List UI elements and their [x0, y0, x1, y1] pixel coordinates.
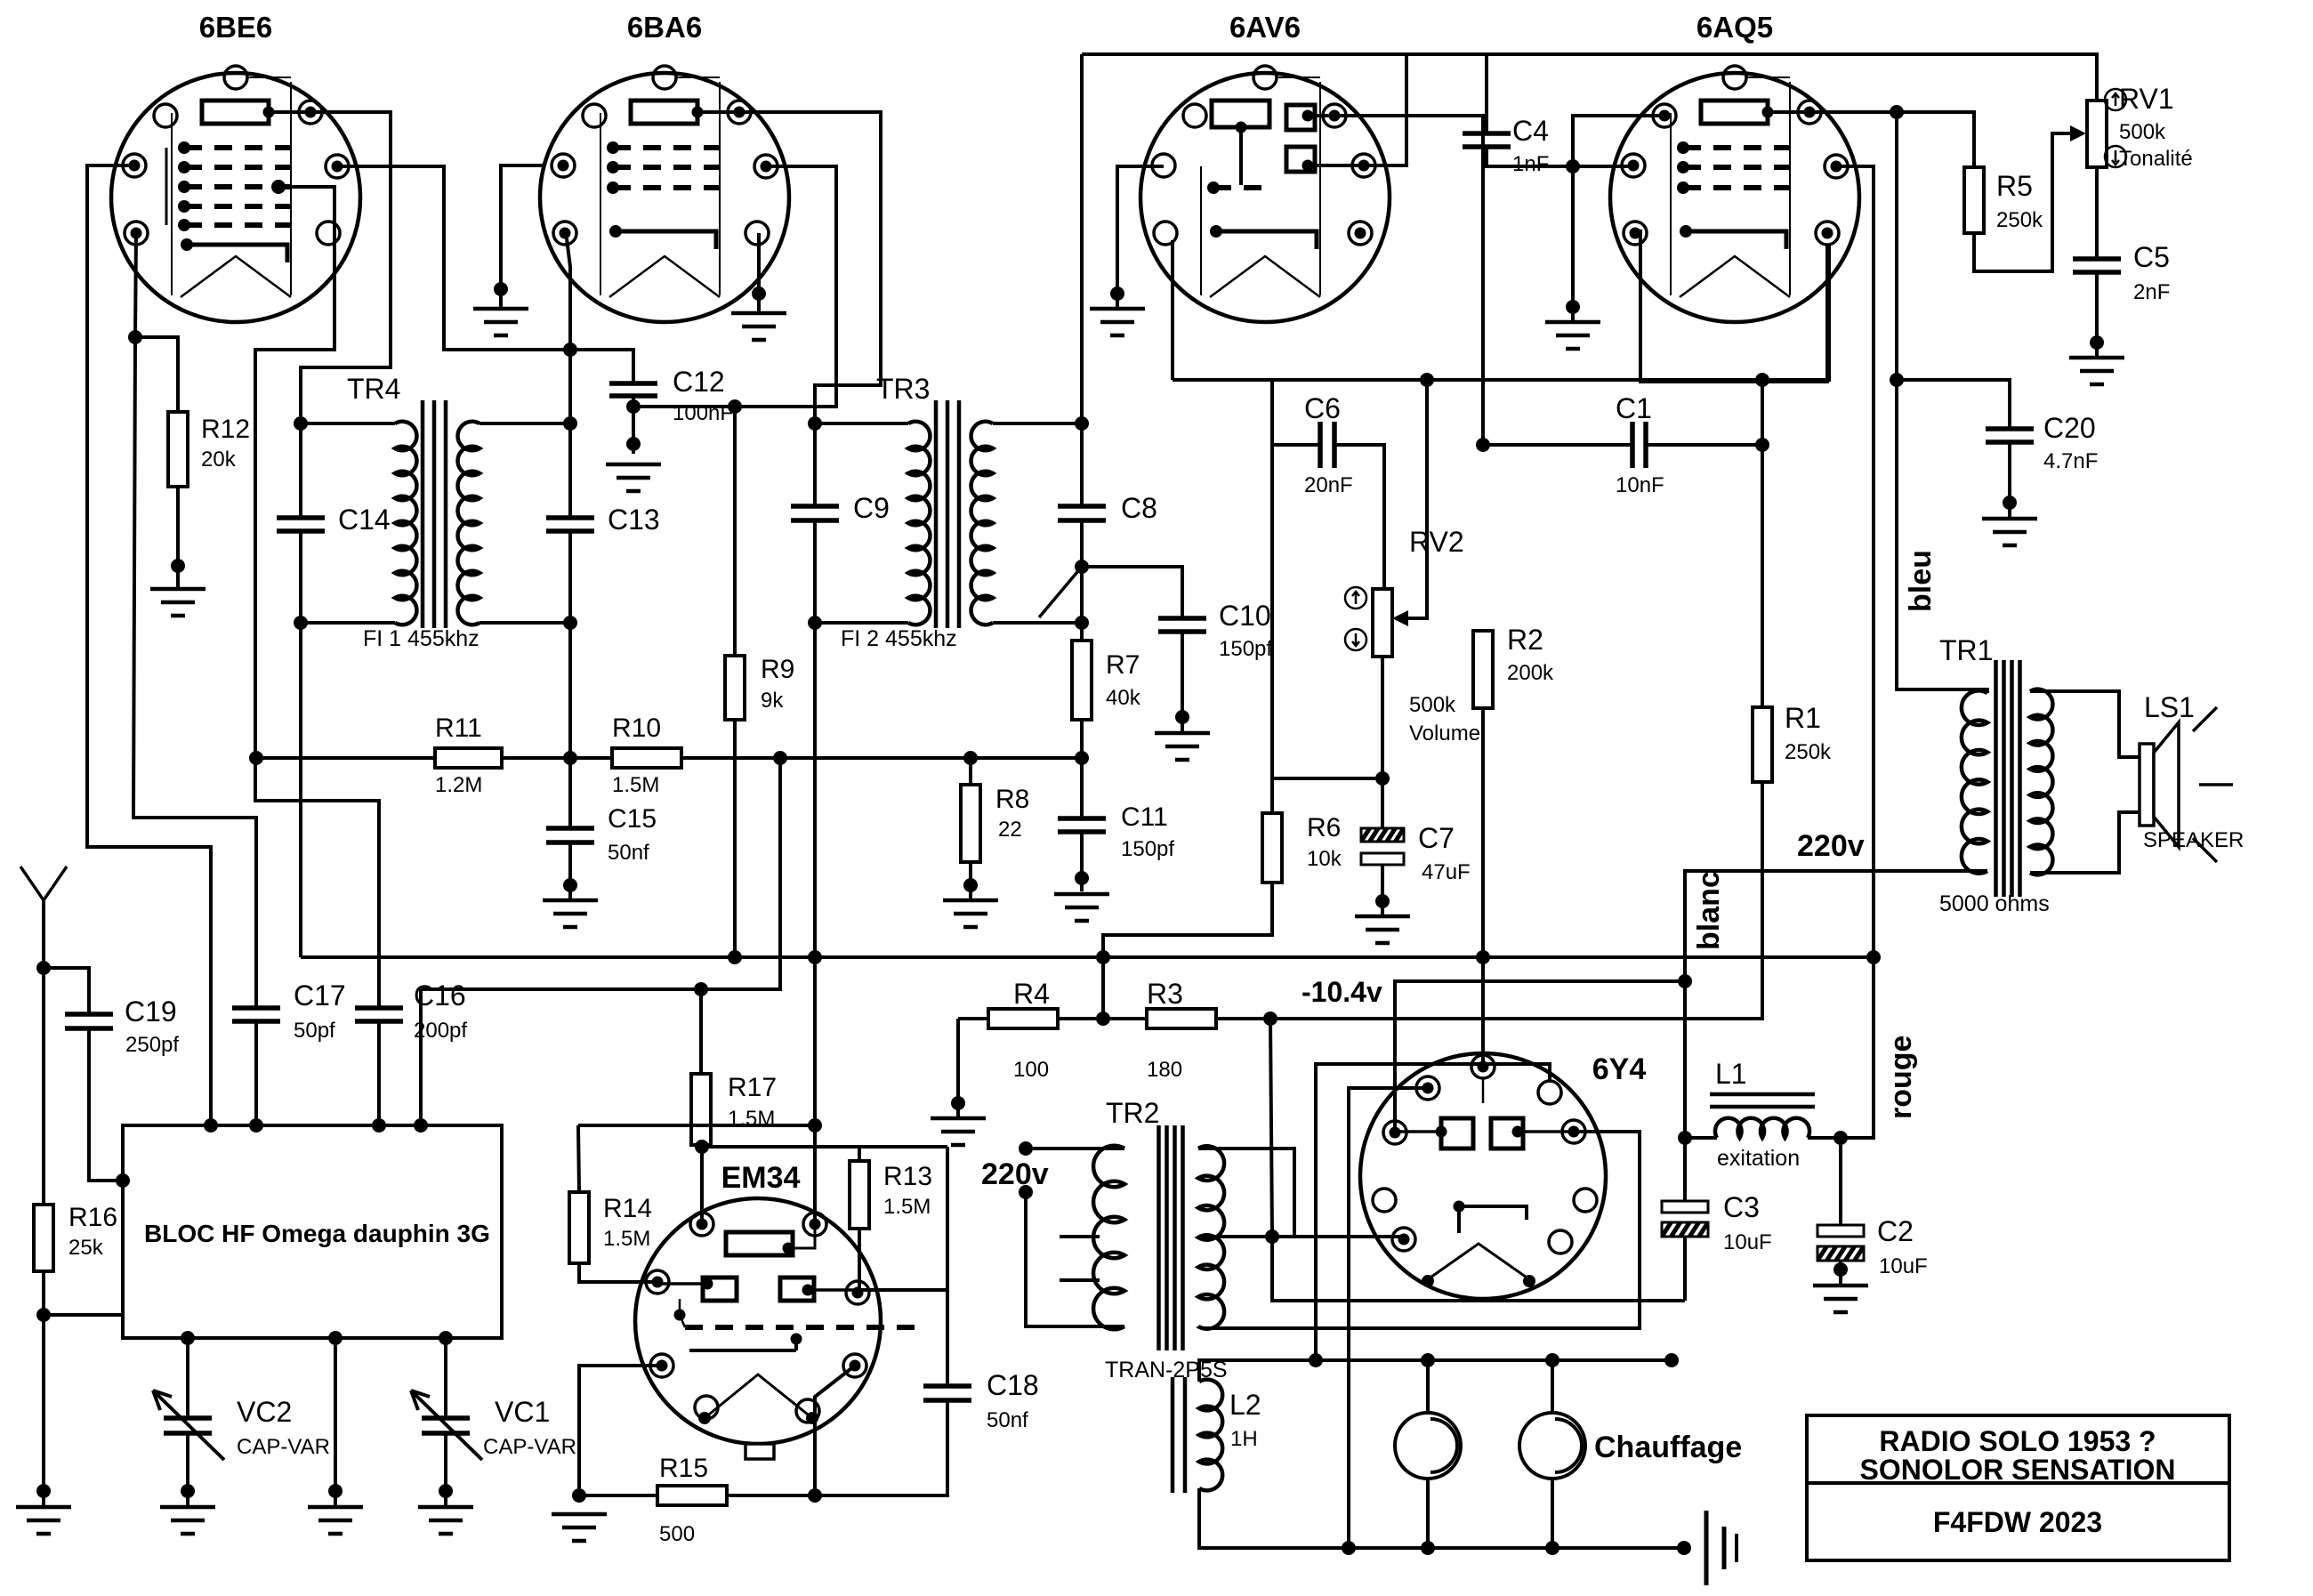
wire to R12: [135, 337, 178, 412]
node 220v in 2: [1019, 1185, 1033, 1199]
tube 6AV6 diode plate 2: [1286, 147, 1315, 172]
transformer TR2 core: [1159, 1125, 1183, 1350]
tube 6BA6 pins: [552, 154, 575, 177]
tube 6BA6 heater: [609, 256, 720, 297]
transformer TR3 primary: [815, 422, 908, 425]
capacitor C3 electrolytic: [1662, 1201, 1708, 1213]
wire 6AV6 pin to top rail: [1364, 54, 1406, 165]
wire 6Y4 heater left to lamps: [1349, 1088, 1428, 1548]
svg-text:5000 ohms: 5000 ohms: [1939, 891, 2050, 916]
transformer TR3 secondary: [993, 422, 1082, 425]
wire C2 ground: [1839, 1261, 1842, 1284]
node R16-BLOC: [36, 1308, 51, 1322]
wire C18 bottom: [815, 1400, 947, 1495]
wire C7 ground: [1381, 865, 1384, 915]
ground R16: [16, 1507, 71, 1534]
tube 6BA6 anode: [631, 101, 697, 124]
svg-text:R2: R2: [1507, 624, 1543, 656]
node bus: [1866, 950, 1881, 964]
wire R12 bottom: [176, 487, 180, 587]
capacitor C14: [299, 423, 302, 518]
ground C5: [2069, 358, 2124, 384]
node C10 gnd: [1175, 710, 1189, 724]
wire 6AQ5 screen pin to gnd: [1573, 116, 1664, 320]
wire R9 top: [733, 407, 737, 656]
RV2 ccw arrow circle: [1345, 629, 1366, 650]
wire EM34 grid pin from R17 rail: [700, 1147, 704, 1224]
capacitor C12: [609, 383, 657, 396]
svg-text:R16: R16: [69, 1203, 117, 1232]
wire 6BE6 cathode: [133, 233, 256, 1008]
tube 6AV6 grid: [1213, 185, 1263, 190]
tube 6AQ5 grids: [1683, 145, 1790, 150]
RV2 cw arrow circle: [1345, 587, 1366, 609]
wire 6BE6 screen to B+: [336, 166, 633, 383]
tube 6Y4 pins: [1471, 1055, 1495, 1078]
TR2 primary taps: [1060, 1235, 1100, 1238]
inductor L1 core: [1710, 1094, 1815, 1107]
svg-text:FI 1 455khz: FI 1 455khz: [363, 626, 480, 651]
wire antenna to C19: [44, 968, 89, 1014]
node RV2-R6-C7: [1375, 771, 1390, 786]
svg-text:6Y4: 6Y4: [1592, 1052, 1647, 1086]
wire antenna to R16: [42, 968, 45, 1205]
TR2 center tap: [1198, 1235, 1404, 1238]
svg-text:C11: C11: [1121, 802, 1168, 832]
capacitor C18: [923, 1386, 971, 1400]
svg-text:6BA6: 6BA6: [627, 11, 702, 44]
svg-text:SPEAKER: SPEAKER: [2143, 828, 2244, 852]
resistor R8: [969, 758, 972, 785]
node R1 top rail: [1755, 373, 1769, 387]
node R15 left: [572, 1488, 586, 1503]
svg-text:22: 22: [998, 818, 1022, 842]
node bottom bus x1516: [1342, 1541, 1356, 1555]
node 220v in 1: [1019, 1141, 1033, 1156]
tube 6BE6 internal frame: [172, 82, 291, 295]
node BLOC top pin: [249, 1118, 263, 1133]
node L1 blanc: [1678, 1131, 1692, 1145]
svg-text:bleu: bleu: [1904, 550, 1938, 612]
ground C20: [1982, 519, 2037, 545]
wire EM34 top rail: [578, 1124, 815, 1127]
wire main AVC/return bus: [301, 955, 1874, 959]
wire R16 bottom: [42, 1271, 45, 1505]
node R4-R3: [1096, 1012, 1110, 1026]
transformer TR4 core: [423, 400, 446, 628]
wire volume wiper feed: [1404, 380, 1427, 618]
node L1 C2: [1833, 1131, 1848, 1145]
wire to C6: [1272, 380, 1320, 445]
ground C15: [543, 900, 598, 927]
wire 6Y4 left pin to blanc: [1395, 981, 1685, 1133]
wire C6 to RV2 top: [1334, 445, 1384, 589]
svg-text:1.2M: 1.2M: [435, 773, 482, 797]
svg-text:C2: C2: [1877, 1215, 1914, 1247]
tube 6AQ5 top pin: [1723, 66, 1746, 89]
variable capacitor VC2: [164, 1418, 212, 1433]
capacitor C15: [568, 758, 572, 828]
svg-text:CAP-VAR: CAP-VAR: [483, 1435, 576, 1459]
node CT: [1265, 1229, 1279, 1244]
svg-text:RV2: RV2: [1409, 526, 1464, 558]
wire 6Y4 right heater to TR2: [1203, 1132, 1640, 1328]
tube 6AV6 diode plate 1: [1286, 105, 1315, 130]
node BLOC bottom pin: [439, 1331, 453, 1345]
wire R6 top: [1270, 445, 1274, 813]
chassis symbol: [1705, 1511, 1709, 1585]
svg-text:-10.4v: -10.4v: [1302, 976, 1382, 1008]
node lamp2 bottom: [1545, 1541, 1559, 1555]
node lamp1 bottom: [1421, 1541, 1435, 1555]
svg-text:C16: C16: [414, 979, 466, 1012]
svg-text:10uF: 10uF: [1879, 1254, 1928, 1278]
resistor R5: [1964, 167, 1984, 233]
resistor R6: [1262, 813, 1282, 883]
capacitor C9: [813, 423, 817, 506]
potentiometer RV2: [1373, 589, 1392, 657]
ground 6AQ5 grid: [1545, 322, 1600, 349]
wire detector line: [1173, 244, 1829, 380]
speaker LS1: [2140, 744, 2154, 826]
node R17 tap: [694, 982, 708, 996]
svg-text:TR2: TR2: [1106, 1097, 1159, 1129]
svg-text:250k: 250k: [1996, 208, 2043, 232]
resistor R3: [1147, 1009, 1216, 1028]
wire 6AV6 cathode to detector line: [1171, 240, 1174, 380]
wire C4 hang: [1485, 54, 1488, 133]
svg-text:R17: R17: [728, 1073, 777, 1102]
svg-text:R10: R10: [612, 713, 661, 743]
svg-text:CAP-VAR: CAP-VAR: [237, 1435, 330, 1459]
node R12 ground: [171, 559, 185, 573]
node C12 ground: [626, 437, 641, 451]
tube 6AV6 heater: [1210, 256, 1320, 297]
capacitor C4: [1463, 133, 1511, 147]
tube 6BE6 heater: [181, 256, 291, 297]
svg-text:RADIO SOLO 1953 ?: RADIO SOLO 1953 ?: [1879, 1425, 2156, 1457]
svg-text:20nF: 20nF: [1304, 473, 1353, 497]
wire C4 to 6AQ5 grid: [1487, 147, 1633, 166]
svg-text:C7: C7: [1418, 822, 1455, 854]
svg-text:R9: R9: [761, 655, 794, 684]
wire 6Y4 heater mid to lamp bus: [1316, 1064, 1550, 1360]
wire VC1 column: [444, 1338, 447, 1418]
transformer TR4 secondary: [480, 422, 570, 425]
tube 6Y4 envelope: [1360, 1053, 1606, 1299]
node C11 gnd: [1075, 871, 1089, 885]
node lamp2 top: [1545, 1353, 1559, 1367]
svg-text:F4FDW 2023: F4FDW 2023: [1933, 1506, 2102, 1538]
resistor R2: [1473, 631, 1493, 708]
wire VC2 column: [186, 1338, 189, 1418]
tube 6BA6 spare pin: [583, 104, 606, 127]
capacitor C1: [1632, 422, 1646, 468]
ground 6BA6 cathode: [731, 313, 786, 340]
tube 6AQ5 spare pin: [1653, 104, 1676, 127]
svg-text:exitation: exitation: [1717, 1146, 1800, 1171]
svg-text:C1: C1: [1616, 392, 1652, 424]
wiper arrow RV1: [2070, 125, 2086, 141]
inductor L1: [1715, 1118, 1809, 1138]
svg-text:blanc: blanc: [1692, 871, 1726, 950]
svg-text:C14: C14: [338, 504, 391, 536]
tube 6AQ5 internal frame: [1671, 82, 1790, 295]
svg-text:SONOLOR SENSATION: SONOLOR SENSATION: [1860, 1454, 2176, 1486]
svg-text:Tonalité: Tonalité: [2119, 147, 2193, 171]
svg-text:4.7nF: 4.7nF: [2043, 449, 2098, 473]
svg-text:LS1: LS1: [2144, 691, 2195, 723]
resistor R7: [1072, 641, 1092, 720]
wire RV2 bottom: [1381, 657, 1384, 828]
tube 6AQ5 pins: [1622, 154, 1645, 177]
node 6BA6 cathode gnd: [752, 286, 766, 301]
node BLOC left pin: [116, 1173, 130, 1188]
tube EM34 pins: [690, 1213, 713, 1236]
wire R7 bottom: [1080, 720, 1084, 818]
node R9 top: [728, 399, 742, 414]
svg-text:R12: R12: [201, 415, 250, 444]
wire C2 column: [1839, 1138, 1842, 1225]
wire C10 ground: [1181, 632, 1184, 731]
node blanc tap: [1678, 974, 1692, 988]
tube 6BE6 top pin: [224, 66, 247, 89]
svg-text:180: 180: [1147, 1058, 1182, 1082]
tube 6AQ5 cathode: [1686, 231, 1786, 249]
tube 6BE6 envelope: [111, 73, 360, 322]
wire RV1 bottom to C5: [2095, 167, 2099, 259]
tube 6BE6 spare pin: [154, 104, 177, 127]
wire R3 node down to TR2 center tap: [1270, 1019, 1272, 1237]
node g-gnd: [1566, 159, 1580, 173]
transformer TR1 secondary: [2030, 689, 2052, 875]
svg-text:100nF: 100nF: [673, 401, 733, 425]
tube 6Y4 heater: [1428, 1244, 1529, 1279]
svg-text:C20: C20: [2043, 412, 2096, 444]
wire B+ top rail: [1082, 54, 2097, 101]
svg-text:R4: R4: [1013, 978, 1050, 1010]
resistor R17: [699, 989, 703, 1074]
wire R13 R17 rail: [702, 1147, 859, 1161]
node wiper feed: [1420, 373, 1434, 387]
svg-text:R13: R13: [883, 1162, 932, 1191]
wire L2 top to lamp bus: [1199, 1360, 1216, 1382]
resistor R11: [256, 756, 435, 760]
ground R4: [931, 1118, 986, 1145]
wire L2 bottom to bottom bus: [1199, 1488, 1684, 1548]
svg-text:R15: R15: [659, 1454, 708, 1483]
wire R4-R3 junction: [1058, 1017, 1147, 1020]
wire 6BA6 plate to TR3: [739, 112, 881, 423]
resistor R16: [34, 1205, 53, 1271]
title block: [1807, 1415, 2229, 1560]
wire TR4 sec column: [568, 423, 572, 518]
wire R5 to RV1 wiper: [1974, 133, 2073, 271]
svg-text:TR3: TR3: [876, 373, 930, 405]
svg-text:40k: 40k: [1106, 686, 1141, 710]
svg-text:100: 100: [1013, 1058, 1049, 1082]
svg-text:10uF: 10uF: [1723, 1230, 1772, 1254]
tube EM34 envelope: [635, 1198, 881, 1444]
resistor R10: [612, 748, 681, 768]
node lamp bus end: [1664, 1353, 1679, 1367]
svg-text:500k: 500k: [2119, 120, 2166, 144]
svg-text:1H: 1H: [1230, 1427, 1258, 1451]
wire to BLOC left: [44, 1313, 123, 1317]
ground C2: [1813, 1286, 1868, 1312]
ground VC2: [160, 1507, 215, 1534]
svg-text:C13: C13: [608, 504, 660, 536]
node R7-R10 rail: [1075, 751, 1089, 765]
svg-text:R11: R11: [435, 713, 482, 743]
tube 6BE6 grids: [184, 145, 291, 150]
node R15 right: [808, 1488, 822, 1503]
wire L1 left: [1685, 1136, 1717, 1140]
wire plate rail up to bus: [813, 957, 817, 1224]
node TR4 pri bottom: [294, 616, 308, 630]
wire 6BE6 plate to TR4: [301, 112, 391, 423]
svg-text:500: 500: [659, 1522, 695, 1546]
wire C16 to BLOC: [377, 1021, 381, 1125]
svg-text:50pf: 50pf: [294, 1019, 335, 1043]
svg-text:1nF: 1nF: [1512, 152, 1549, 176]
svg-text:R5: R5: [1996, 170, 2033, 202]
tube 6AQ5 envelope: [1610, 73, 1859, 322]
svg-text:9k: 9k: [761, 689, 784, 713]
svg-text:C9: C9: [853, 492, 890, 524]
tube 6AQ5 anode: [1701, 101, 1768, 124]
ground C11: [1054, 894, 1109, 921]
svg-text:C6: C6: [1304, 392, 1341, 424]
svg-text:20k: 20k: [201, 447, 237, 472]
tube EM34 anode: [726, 1232, 793, 1255]
resistor R13: [850, 1161, 869, 1229]
variable capacitor VC1: [422, 1418, 470, 1433]
tube 6Y4 plate 1: [1441, 1118, 1473, 1149]
wire CT down to heater line: [1272, 1237, 1685, 1301]
node TR3 sec top: [1075, 416, 1089, 431]
svg-text:500k: 500k: [1409, 693, 1456, 717]
tube 6AV6 top pin: [1253, 66, 1277, 89]
tube 6Y4 plate feed: [1482, 1077, 1485, 1103]
wire TR4 pri bottom to bus: [299, 623, 302, 957]
wire TR1 pri bottom 220v: [1685, 871, 1987, 1201]
antenna: [42, 900, 45, 968]
resistor R12: [168, 412, 188, 487]
svg-text:1.5M: 1.5M: [883, 1195, 931, 1219]
tube 6BE6 cathode: [187, 245, 287, 262]
node TR4 pri top: [294, 416, 308, 431]
tube 6AV6 pins: [1152, 154, 1175, 177]
svg-text:10nF: 10nF: [1616, 473, 1664, 497]
svg-text:200k: 200k: [1507, 661, 1554, 685]
ground C7: [1355, 916, 1410, 943]
node R16 gnd: [36, 1484, 51, 1498]
node tap: [1075, 560, 1089, 574]
wire 6AV6 diode1 to R2: [1334, 116, 1483, 445]
wiper arrow RV2: [1392, 610, 1408, 626]
svg-text:R6: R6: [1307, 813, 1341, 842]
svg-text:200pf: 200pf: [414, 1019, 467, 1043]
node TR4 sec bottom: [563, 616, 577, 630]
svg-text:150pf: 150pf: [1219, 637, 1272, 661]
node BLOC top pin: [204, 1118, 218, 1133]
wire bleu: [1897, 112, 1987, 693]
node EM34 plate rail: [808, 1118, 822, 1133]
wire lamp top bus: [1216, 1358, 1672, 1362]
svg-text:C5: C5: [2133, 241, 2170, 273]
ground 6BA6 g3: [473, 309, 528, 335]
svg-text:C10: C10: [1219, 600, 1271, 632]
node antenna: [36, 961, 51, 975]
lamp 2: [1551, 1360, 1554, 1413]
svg-text:C4: C4: [1512, 115, 1549, 147]
resistor R1: [1753, 707, 1772, 782]
node TR3 sec bottom: [1075, 616, 1089, 630]
ground BLOC mid: [308, 1507, 363, 1534]
wire R9 bottom to bus: [733, 720, 737, 957]
wire R2 bottom to bus: [1481, 708, 1485, 957]
node R1 top: [1755, 438, 1769, 452]
svg-text:50nf: 50nf: [987, 1408, 1028, 1432]
tube 6BE6 pins: [123, 154, 146, 177]
wire C1 to R1: [1646, 443, 1762, 447]
wire rouge from pin: [1836, 166, 1874, 1138]
tube 6BE6 anode: [202, 101, 269, 124]
wire 6AV6 grid to ground: [1117, 166, 1164, 307]
node TR3 pri top: [808, 416, 822, 431]
capacitor C10: [1158, 618, 1206, 632]
wire VC2 ground: [186, 1433, 189, 1505]
wire TR3 sec column: [1080, 520, 1084, 641]
node AVC-R11: [249, 751, 263, 765]
svg-text:1.5M: 1.5M: [612, 773, 659, 797]
transformer TR1 core: [1996, 660, 2020, 897]
wire R1 bottom to -10.4v line: [1270, 782, 1762, 1019]
svg-text:BLOC HF Omega dauphin 3G: BLOC HF Omega dauphin 3G: [144, 1220, 490, 1247]
tube 6BA6 envelope: [540, 73, 789, 322]
svg-text:C19: C19: [125, 995, 177, 1028]
svg-text:L2: L2: [1229, 1389, 1261, 1421]
wire R3 right: [1216, 1017, 1270, 1020]
svg-text:Volume: Volume: [1409, 721, 1480, 746]
capacitor C13: [546, 518, 594, 531]
svg-text:150pf: 150pf: [1121, 837, 1174, 861]
svg-text:250k: 250k: [1785, 740, 1832, 764]
node BLOC top pin: [372, 1118, 386, 1133]
wire 6BA6 grid3 to ground: [501, 165, 544, 307]
svg-text:TR1: TR1: [1939, 634, 1993, 666]
svg-text:EM34: EM34: [721, 1161, 801, 1195]
svg-text:10k: 10k: [1307, 847, 1342, 871]
svg-text:220v: 220v: [1797, 829, 1865, 863]
tube EM34 target 2: [780, 1278, 814, 1301]
wire TR3 sec top to 6AV6 rail: [1080, 54, 1084, 506]
wire TR3 pri bottom to bus: [813, 623, 817, 957]
block BLOC HF Omega dauphin 3G: [123, 1125, 502, 1338]
capacitor C11: [1058, 818, 1106, 832]
resistor R4: [958, 1017, 988, 1020]
tube 6AV6 spare pin: [1183, 104, 1206, 127]
inductor L2: [1173, 1377, 1185, 1493]
svg-text:6AV6: 6AV6: [1229, 11, 1301, 44]
svg-text:RV1: RV1: [2119, 83, 2174, 115]
svg-text:C8: C8: [1121, 492, 1157, 524]
svg-text:47uF: 47uF: [1422, 860, 1471, 884]
tube EM34 key tab: [745, 1444, 774, 1459]
wire C20 ground: [2008, 442, 2011, 517]
svg-text:6BE6: 6BE6: [199, 11, 273, 44]
